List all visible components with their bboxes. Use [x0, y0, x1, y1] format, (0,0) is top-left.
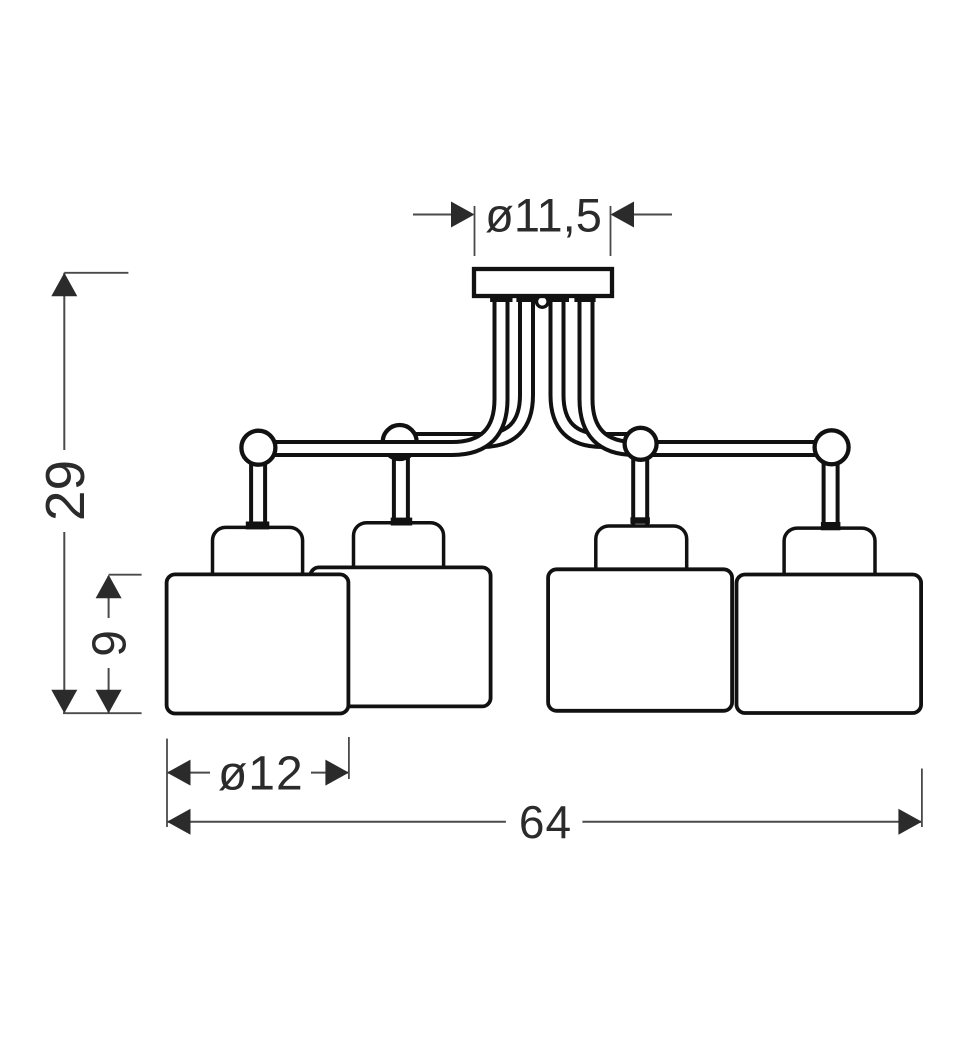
neck 1 (outer-left shade fitting): [213, 527, 303, 589]
dimension ø11,5 : extension line right: [610, 206, 612, 256]
dimension 29 : line lower segment: [63, 532, 65, 713]
svg-text:ø11,5: ø11,5: [485, 189, 602, 242]
shade 4 (outer-right): [737, 575, 922, 714]
canopy collar bar C: [547, 296, 569, 303]
arm tube B (inner-left, canopy to inner ball): [412, 294, 527, 441]
dimension ø12 : extension line right: [348, 737, 350, 779]
dimension 29 : extension line top: [64, 272, 128, 274]
dimension ø12 : line left segment: [167, 772, 210, 774]
dimension ø12 : arrow left: [167, 760, 191, 786]
collar 1: [246, 522, 269, 530]
stem 1 (outer-left): [249, 450, 267, 526]
arm tube D (outer-right, canopy to outer ball): [586, 294, 828, 449]
collar 4: [821, 522, 841, 530]
canopy collar bar D: [574, 296, 595, 303]
canopy collar bar B: [516, 296, 538, 303]
svg-text:ø12: ø12: [218, 748, 304, 801]
canopy plate: [474, 269, 612, 296]
ball joint 3 (inner-right): [625, 428, 657, 460]
stem 2 (inner-left): [392, 450, 410, 524]
canopy collar bar A: [490, 296, 512, 303]
neck 4 (outer-right shade fitting): [784, 528, 875, 590]
dimension 29/9 : shared extension line bottom: [63, 712, 142, 714]
dimension ø11,5 : leader left: [413, 214, 452, 216]
svg-text:9: 9: [84, 630, 137, 657]
dimension ø11,5 : leader right: [633, 214, 672, 216]
dimension ø11,5 : arrow right: [611, 202, 635, 228]
stem 3 (inner-right): [631, 450, 649, 525]
dimension ø12 : arrow right: [325, 760, 349, 786]
shade 2 (inner-left): [310, 567, 490, 706]
dimension 9 : line upper segment: [108, 576, 110, 618]
collar 2: [391, 518, 413, 526]
canopy mount circle: [537, 296, 549, 308]
dimension ø12 : extension line left (shared with 64): [166, 739, 168, 827]
neck 3 (inner-right shade fitting): [596, 526, 687, 586]
stem 4 (outer-right): [822, 450, 840, 527]
svg-text:64: 64: [519, 796, 572, 848]
dimension ø11,5 : arrow left: [451, 202, 475, 228]
dimension 64 : line right segment: [582, 821, 922, 823]
svg-text:29: 29: [34, 460, 96, 521]
dimension ø12 : line right segment: [311, 772, 349, 774]
arm tube C (inner-right, canopy to inner ball): [557, 294, 629, 441]
ball joint 1 (outer-left): [241, 431, 275, 465]
dimension 64 : extension line right: [921, 769, 923, 828]
dimension 64 : line left segment: [167, 821, 506, 823]
dimension 29 : line upper segment: [63, 273, 65, 450]
dimension 9 : arrow top: [96, 575, 122, 599]
dimension 64 : arrow left: [167, 809, 191, 835]
dimension 9 : line lower segment: [108, 668, 110, 713]
neck 2 (inner-left shade fitting): [354, 523, 444, 585]
dimension 9 : arrow bottom: [96, 690, 122, 714]
ball joint 4 (outer-right): [815, 430, 849, 464]
dimension 64 : arrow right: [898, 809, 922, 835]
dimension 29 : arrow bottom: [51, 690, 77, 714]
dimension 29 : arrow top: [51, 273, 77, 297]
dimension ø11,5 : extension line left: [474, 206, 476, 256]
shade 1 (outer-left): [167, 574, 349, 713]
dimension 9 : extension line top: [109, 574, 142, 576]
collar 3: [630, 517, 650, 524]
ball joint 2 (inner-left): [383, 425, 417, 459]
shade 3 (inner-right): [548, 569, 732, 711]
arm tube A (outer-left, canopy to outer ball): [262, 294, 501, 449]
